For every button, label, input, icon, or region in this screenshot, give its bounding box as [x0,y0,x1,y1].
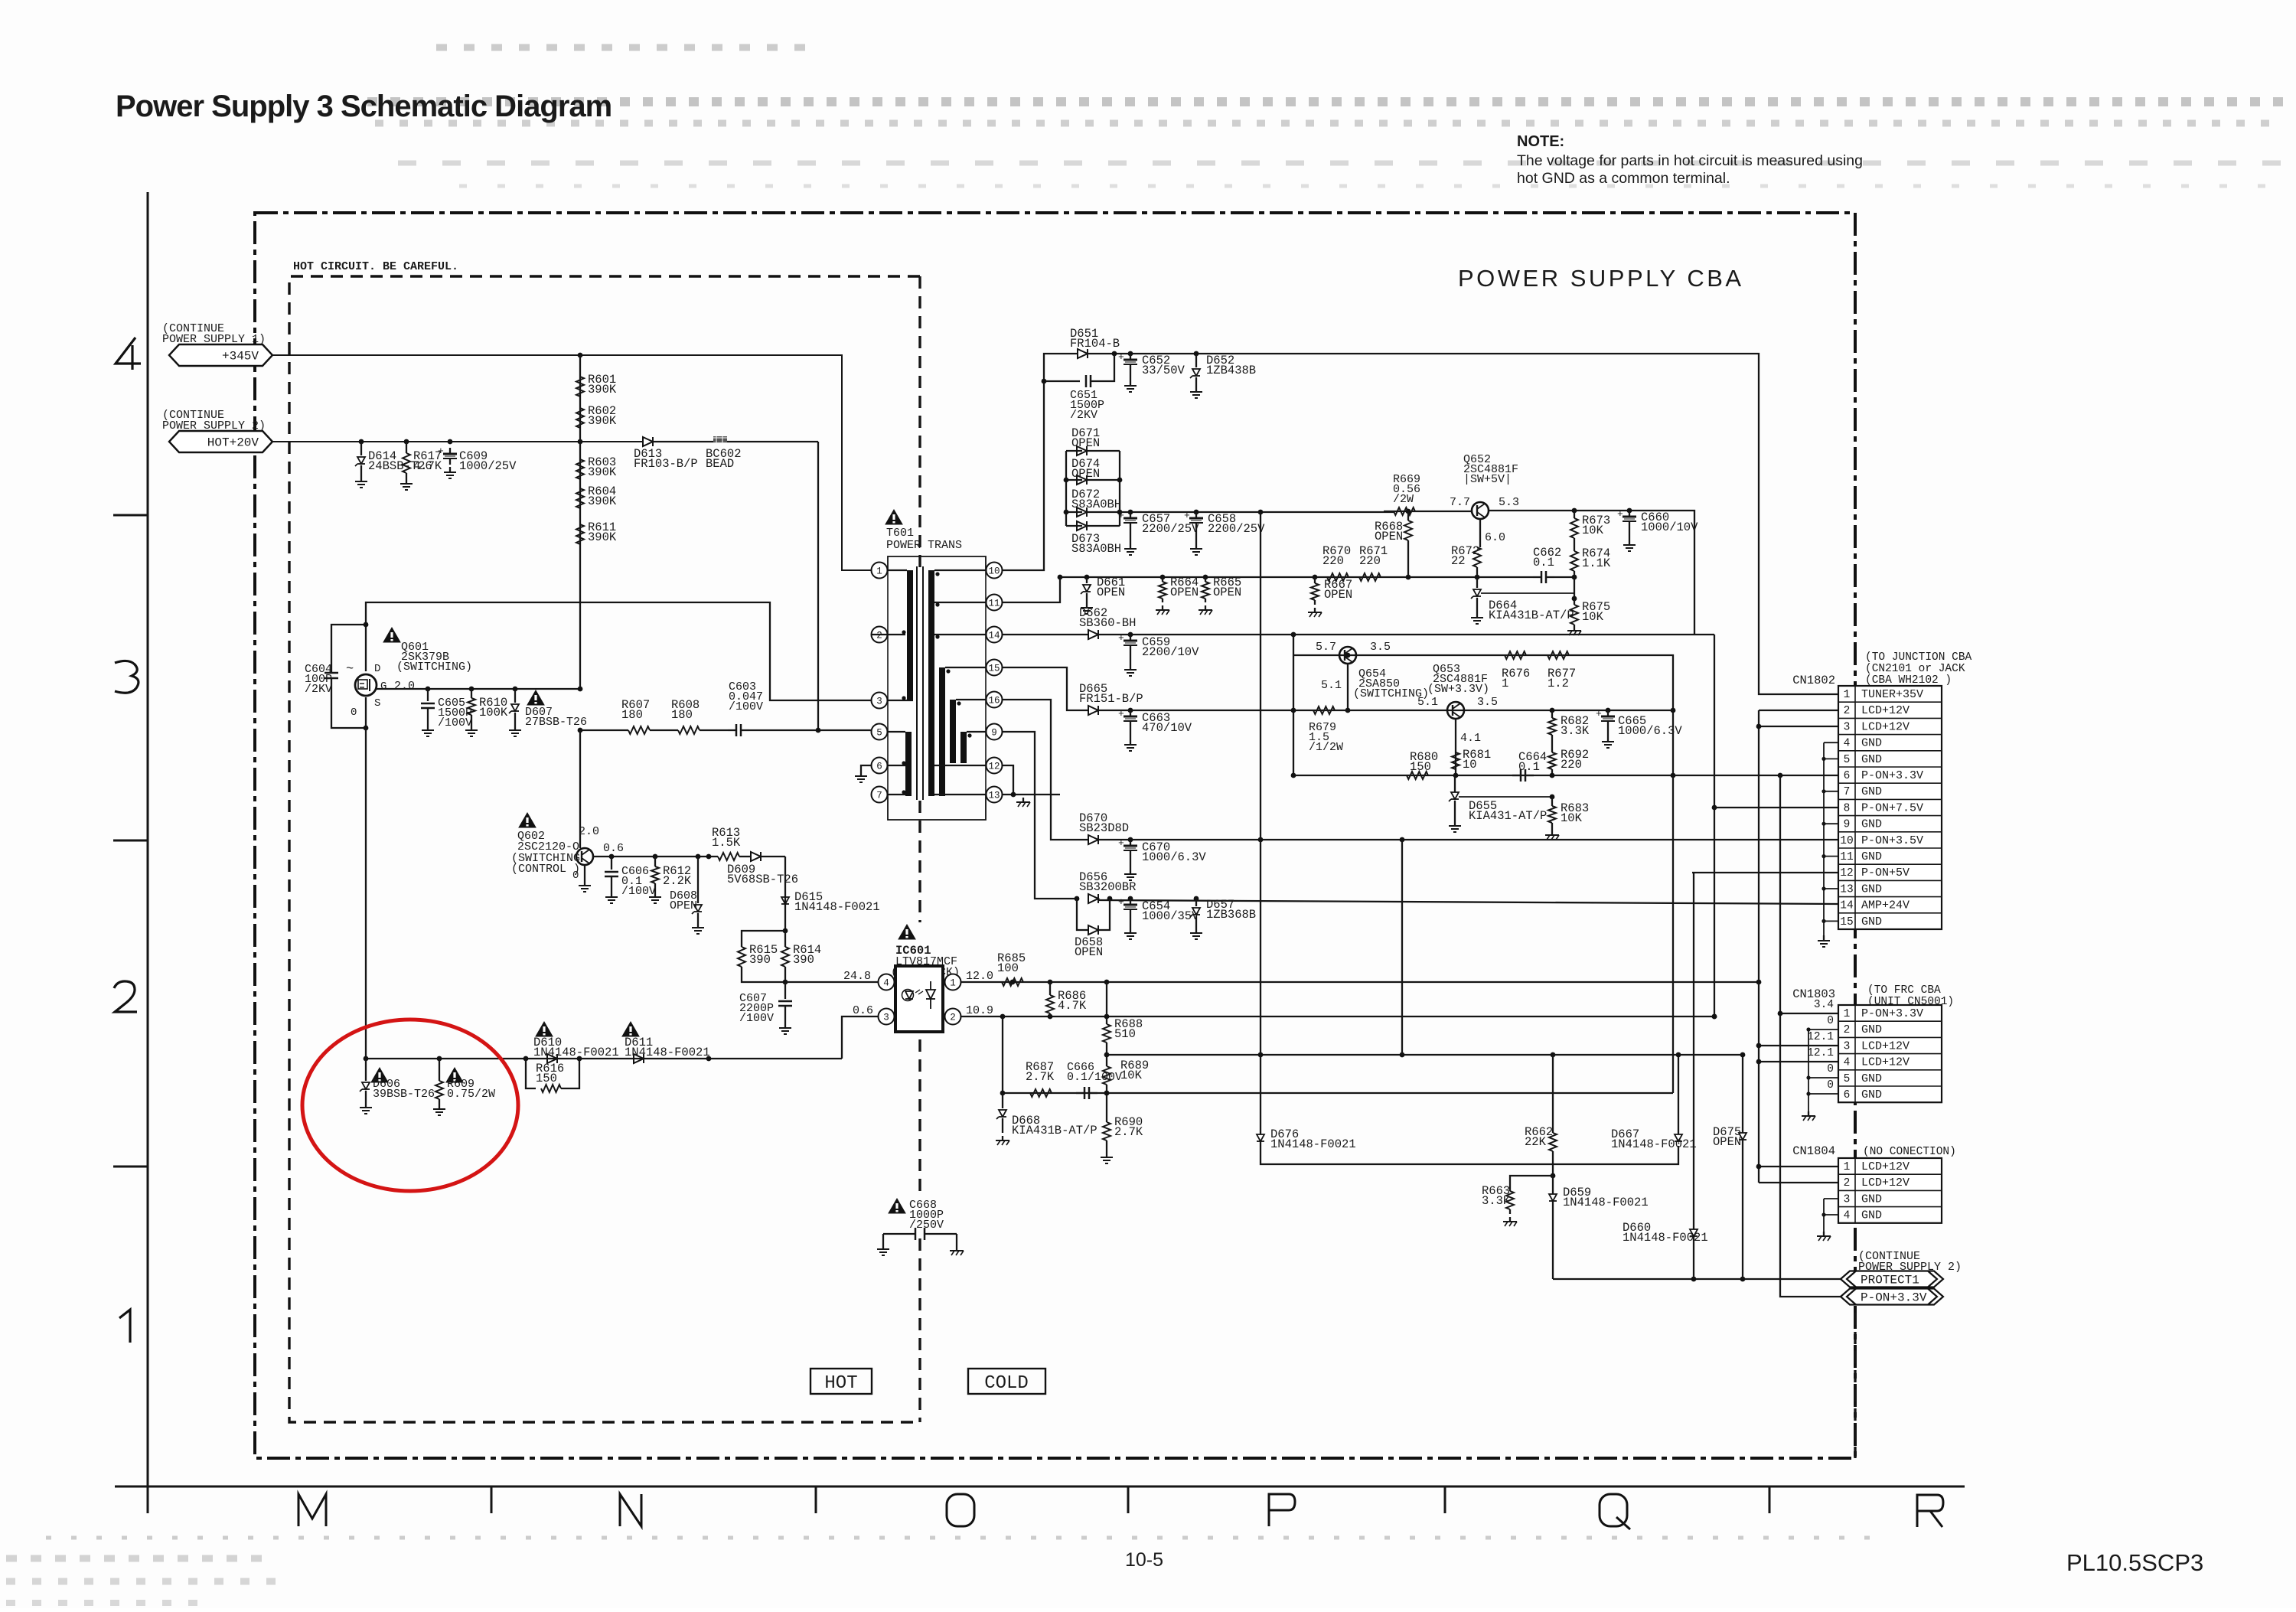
svg-text:2.7K: 2.7K [1114,1125,1143,1139]
svg-text:NOTE:: NOTE: [1517,133,1564,150]
svg-text:390K: 390K [588,530,617,544]
pin 15 [987,660,1003,676]
wire P-ON5V row12 [1692,872,1838,873]
capacitor C660 [1629,511,1630,517]
resistor R673 [1574,511,1575,518]
pin 2 [945,1009,961,1025]
svg-text:100K: 100K [479,706,508,720]
warning triangle D611 [622,1022,639,1036]
svg-text:LCD+12V: LCD+12V [1861,720,1910,733]
wire rectifier output SW5V line [1120,511,1394,513]
wire SW5V rail [1384,511,1472,512]
svg-text:1: 1 [1844,1008,1851,1020]
svg-text:GND: GND [1861,1088,1882,1101]
svg-text:+: + [1118,837,1124,849]
svg-text:4: 4 [1844,738,1851,750]
svg-text:POWER SUPPLY 1): POWER SUPPLY 1) [162,333,266,346]
wire P-ON+3.3V line [1295,775,1838,776]
svg-text:13: 13 [988,791,1000,801]
resistor R692 [1548,752,1556,769]
capacitor C663 [1130,710,1131,716]
svg-text:14: 14 [1840,900,1853,912]
column letter P [1269,1494,1295,1526]
zener D655 [1451,792,1459,799]
resistor R617 [406,442,407,453]
wire pin12 to pin13 ground [1003,765,1013,795]
capacitor C654 [1130,899,1131,905]
wire +345V rail to T601 pin1 [272,355,879,570]
resistor R616 loop [526,1059,536,1088]
svg-text:SB23D8D: SB23D8D [1079,821,1129,835]
zener D607 [514,689,516,703]
svg-text:1ZB438B: 1ZB438B [1206,364,1256,377]
diode D665 [1088,706,1098,715]
warning triangle D607 [527,690,544,705]
warning triangle D606 [371,1068,388,1082]
svg-text:+: + [1118,632,1124,644]
svg-text:P-ON+7.5V: P-ON+7.5V [1861,801,1923,814]
bottom axis tick 2 [815,1486,817,1513]
svg-text:1N4148-F0021: 1N4148-F0021 [1611,1137,1697,1151]
svg-text:(NO CONECTION): (NO CONECTION) [1863,1146,1956,1158]
resistor R674 [1570,551,1578,571]
svg-text:10-5: 10-5 [1125,1549,1163,1571]
resistor R677 [1548,651,1569,659]
svg-text:4: 4 [883,978,889,989]
resistor R664 [1162,577,1163,582]
resistor R686 [1049,982,1051,995]
svg-text:LCD+12V: LCD+12V [1861,1160,1910,1173]
polarity dots T601 [902,630,905,634]
wire LCD12V corner x2240 [1714,635,1715,1016]
svg-text:~: ~ [346,662,354,677]
svg-text:P-ON+3.3V: P-ON+3.3V [1861,769,1923,782]
resistor R676 [1505,651,1526,659]
wire Q602 base line [593,856,718,857]
zener D606 [365,1059,367,1081]
connector CN1804 [1838,1158,1942,1223]
svg-text:2200/25V: 2200/25V [1208,522,1265,536]
wire pin1 feedback rail [961,981,1759,983]
diode D662 [1088,630,1098,639]
resistor R665 [1205,577,1206,582]
resistor R607 [628,726,650,734]
svg-text:/100V: /100V [621,885,656,898]
diode D659 [1549,1194,1557,1201]
transistor Q652 [1472,502,1489,519]
resistor R609 [439,1059,440,1081]
resistor R610 [471,689,472,698]
svg-text:5: 5 [876,728,882,739]
svg-text:1: 1 [1844,1161,1851,1173]
svg-text:T601: T601 [886,527,914,540]
wire CN1804 gnd stubs [1824,1198,1838,1199]
pin 13 [987,787,1003,803]
capacitor C659 [1130,635,1131,641]
transistor Q654 [1339,647,1356,664]
svg-text:1000/6.3V: 1000/6.3V [1618,724,1682,738]
warning triangle IC601 [889,922,966,977]
wire BC602 to gate-drive line [817,442,819,730]
transformer winding secondary A [928,570,934,796]
svg-text:7: 7 [876,791,882,801]
axis tick row3/2 [113,840,148,842]
svg-text:5.1: 5.1 [1321,679,1342,692]
chassis ground pin13 [1022,798,1024,802]
svg-text:4: 4 [1844,1057,1851,1069]
svg-text:OPEN: OPEN [1071,467,1100,481]
svg-text:1000/25V: 1000/25V [459,459,517,473]
zener D608 [697,857,699,903]
wire CN1802 gnd stubs [1824,742,1838,743]
svg-text:/1/2W: /1/2W [1309,741,1343,754]
diode D674 [1077,475,1087,485]
resistor R679 [1313,706,1335,714]
svg-text:P-ON+3.3V: P-ON+3.3V [1861,1291,1927,1305]
wire SW3.3 top rail [1293,655,1673,775]
wire D668 branch [1002,1016,1003,1093]
svg-text:390: 390 [793,953,814,967]
transistor Q653 [1447,702,1464,719]
diode D615 [781,897,789,904]
wire PROTECT1 line [1553,1278,1841,1280]
resistor R681 [1452,752,1459,769]
row label 3 [115,661,139,693]
wire vertical x1832 [1401,840,1403,1055]
transformer winding secondary D [960,732,967,763]
svg-text:4: 4 [1844,1210,1851,1222]
svg-text:(SWITCHING): (SWITCHING) [396,661,472,674]
bottom axis line [115,1486,1965,1488]
capacitor C605 [427,689,429,701]
column letter O [947,1494,974,1526]
svg-text:1.2: 1.2 [1548,677,1569,690]
svg-text:OPEN: OPEN [1170,586,1199,599]
pin 14 [987,627,1003,643]
net flag HOT+20V [169,431,272,452]
svg-text:+: + [1118,351,1124,363]
svg-text:(TO JUNCTION CBA: (TO JUNCTION CBA [1865,651,1972,664]
svg-text:1: 1 [950,978,956,989]
transistor Q602 [576,848,593,865]
wire Q654 base down [1347,664,1349,710]
svg-text:3.3K: 3.3K [1561,724,1590,738]
svg-text:1: 1 [876,566,882,577]
svg-text:OPEN: OPEN [1713,1135,1741,1149]
pin 2 [872,627,888,643]
net flag P-ON+3.3V [1841,1289,1943,1305]
svg-text:3.3K: 3.3K [1482,1194,1511,1208]
resistor R688 [1106,982,1107,1024]
svg-text:10.9: 10.9 [966,1004,993,1017]
wire mid bus y1378 [1107,1054,1553,1056]
wire emitter rail y928 [1293,710,1673,711]
svg-text:390K: 390K [588,494,617,508]
svg-text:0.6: 0.6 [853,1004,873,1017]
net flag +345V [169,344,272,366]
zener D652 [1195,354,1197,367]
svg-text:+: + [1118,510,1124,521]
svg-text:(CN2101 or JACK: (CN2101 or JACK [1865,663,1965,675]
svg-text:7: 7 [1844,786,1851,798]
svg-text:FR103-B/P: FR103-B/P [634,457,698,471]
svg-text:1N4148-F0021: 1N4148-F0021 [1270,1137,1356,1151]
svg-text:7.7: 7.7 [1450,496,1470,509]
svg-text:5: 5 [1844,754,1851,766]
svg-text:1000/6.3V: 1000/6.3V [1142,850,1206,864]
svg-text:0: 0 [1827,1015,1834,1027]
pin 12 [987,758,1003,774]
svg-text:3: 3 [1844,1040,1851,1052]
wire base line to D615 node [784,857,786,931]
svg-text:BEAD: BEAD [706,457,734,471]
svg-text:2: 2 [1844,1177,1851,1189]
svg-text:6: 6 [1844,1089,1851,1101]
svg-text:P-ON+5V: P-ON+5V [1861,866,1910,879]
diode D670 [1088,835,1098,844]
svg-text:0: 0 [351,706,357,719]
svg-text:POWER SUPPLY 2): POWER SUPPLY 2) [1858,1261,1962,1274]
svg-text:2.7K: 2.7K [1026,1070,1055,1084]
svg-text:GND: GND [1861,753,1882,766]
svg-text:2: 2 [1844,1024,1851,1036]
wire D655 row [1454,775,1456,792]
svg-text:GND: GND [1861,883,1882,896]
svg-text:OPEN: OPEN [1375,530,1403,543]
svg-text:1: 1 [1502,677,1508,690]
svg-text:3: 3 [876,697,882,707]
svg-text:1N4148-F0021: 1N4148-F0021 [533,1046,619,1059]
svg-text:TUNER+35V: TUNER+35V [1861,688,1923,701]
bottom axis tick 1 [491,1486,493,1513]
svg-text:+: + [1617,508,1623,520]
resistor R690 [1106,1093,1107,1122]
svg-text:10K: 10K [1582,610,1604,624]
svg-text:0.6: 0.6 [603,842,624,855]
svg-text:D: D [374,663,380,675]
svg-text:9: 9 [991,728,997,739]
connector CN1802 [1838,686,1942,929]
svg-text:12.1: 12.1 [1807,1047,1834,1059]
row label 2 [114,981,137,1012]
svg-text:GND: GND [1861,915,1882,928]
svg-text:12.0: 12.0 [966,970,993,983]
capacitor C664 [1512,775,1521,776]
svg-text:8: 8 [1844,802,1851,814]
svg-text:/2KV: /2KV [1070,409,1097,422]
svg-text:P-ON+3.5V: P-ON+3.5V [1861,834,1923,847]
axis tick row4/3 [113,514,148,517]
svg-text:LCD+12V: LCD+12V [1861,1039,1910,1052]
column letter R [1917,1495,1943,1527]
diode D671 [1077,446,1087,455]
svg-text:2: 2 [1844,705,1851,717]
svg-text:6: 6 [1844,770,1851,782]
bottom axis tick 3 [1127,1486,1130,1513]
svg-text:1N4148-F0021: 1N4148-F0021 [625,1046,710,1059]
svg-text:2.0: 2.0 [579,825,599,838]
svg-text:1.5K: 1.5K [712,836,741,850]
diode D656 [1088,894,1098,903]
svg-text:KIA431-AT/P: KIA431-AT/P [1469,809,1547,823]
capacitor C658 [1195,512,1197,518]
svg-text:0.1: 0.1 [1518,760,1540,774]
pin 4 [879,974,895,990]
svg-text:GND: GND [1861,1023,1882,1036]
scan artifact band 1 [436,44,811,51]
hot circuit dashed box [289,276,920,1422]
wire vertical x1647 [1260,512,1261,1055]
capacitor C607 [784,982,786,999]
wire left block edge x1690 [1293,635,1294,775]
svg-text:+345V: +345V [222,350,259,364]
resistor R680 [1407,772,1428,779]
resistor R689 [1106,1055,1107,1066]
svg-text:GND: GND [1861,818,1882,831]
wire T601 pin stubs left [888,569,907,571]
svg-text:510: 510 [1114,1027,1136,1041]
svg-text:S83A0BH: S83A0BH [1071,542,1121,556]
svg-text:+: + [1184,510,1190,521]
row label 4 [116,338,141,370]
wire chain to Q602 collector [579,730,581,848]
svg-text:S: S [374,697,380,710]
wire CN1803 gnd stubs [1808,1029,1838,1030]
svg-text:27BSB-T26: 27BSB-T26 [525,716,587,729]
svg-text:5.1: 5.1 [1417,696,1438,709]
svg-text:SB360-BH: SB360-BH [1079,616,1136,630]
red inspection ellipse [302,1020,518,1191]
resistor R683 [1551,797,1553,806]
pin 1 [872,563,888,579]
hot cold divider dashed line [918,276,921,569]
zener D657 [1195,899,1197,906]
bottom axis tick 5 [1769,1486,1771,1513]
capacitor C651 loop [1044,380,1080,382]
capacitor C666 [1076,1092,1084,1094]
ground T601 pin6 [861,765,871,771]
svg-text:LCD+12V: LCD+12V [1861,1176,1910,1189]
svg-text:KIA431B-AT/P: KIA431B-AT/P [1489,609,1574,622]
svg-text:1000/10V: 1000/10V [1641,520,1698,534]
resistor R662 [1552,1055,1554,1133]
wire AMP+24V line [1099,900,1838,904]
svg-text:PROTECT1: PROTECT1 [1861,1274,1919,1287]
svg-text:+: + [438,445,444,457]
wire Q601 source to D606 line [365,697,367,1059]
row label 1 [119,1310,130,1343]
svg-text:LCD+12V: LCD+12V [1861,1056,1910,1069]
resistor R687 [1030,1089,1052,1097]
wire P-ON+3.5V line [1099,839,1838,840]
svg-text:6.0: 6.0 [1485,531,1505,544]
capacitor C603 [728,729,736,731]
svg-text:/2W: /2W [1393,493,1414,506]
svg-text:390K: 390K [588,414,617,428]
svg-text:1N4148-F0021: 1N4148-F0021 [794,900,880,914]
warning triangle Q602 [519,813,536,827]
svg-text:(TO FRC CBA: (TO FRC CBA [1867,984,1941,997]
ground Q602 emitter [584,865,585,880]
svg-text:Power Supply 3 Schematic Diagr: Power Supply 3 Schematic Diagram [116,90,612,123]
wire C603 to pin5 [749,729,879,731]
wire pin16 to D670 [1003,700,1088,840]
resistor R611 [576,524,584,544]
diode D658 parallel loop [1077,899,1088,930]
svg-text:GND: GND [1861,1072,1882,1085]
svg-text:180: 180 [621,708,643,722]
wire TUNER+35V rail [1088,354,1838,694]
svg-text:10: 10 [1463,758,1477,772]
svg-text:10: 10 [988,566,1000,577]
diode D609 [751,852,761,861]
capacitor C657 [1130,512,1131,518]
svg-text:220: 220 [1359,554,1381,568]
wire snubber line to T601 pin5 [580,729,628,731]
resistor R682 [1551,710,1553,718]
svg-text:220: 220 [1561,758,1582,772]
svg-text:150: 150 [536,1072,557,1085]
column letter M [298,1494,326,1526]
svg-text:10K: 10K [1582,524,1604,537]
svg-text:390K: 390K [588,383,617,396]
wire D676 to D667 link [1261,1141,1678,1164]
svg-text:OPEN: OPEN [1071,436,1100,450]
svg-text:16: 16 [988,696,1000,706]
transformer winding primary top [907,570,913,700]
pin 1 [945,974,961,990]
svg-text:OPEN: OPEN [1213,586,1241,599]
diode D651 [1078,349,1088,358]
resistor R672 [1473,547,1481,567]
resistor R601 [576,377,584,396]
outer dash-dot border [255,213,1855,1458]
svg-text:GND: GND [1861,850,1882,863]
transformer winding secondary B [939,667,945,796]
svg-text:OPEN: OPEN [670,899,697,912]
svg-text:2.0: 2.0 [394,680,415,693]
svg-text:OPEN: OPEN [1097,586,1125,599]
svg-text:9: 9 [1844,819,1851,831]
svg-text:3.5: 3.5 [1477,696,1498,709]
resistor R608 [678,726,700,734]
svg-text:1N4148-F0021: 1N4148-F0021 [1623,1231,1708,1245]
wire pin9 to D656 [1003,732,1077,899]
wire bus extension to D667 [1553,1054,1678,1056]
resistor R614 [784,931,786,947]
wire T601 pin10 to D651 [1003,354,1078,570]
pin 7 [872,787,888,803]
diode D676 drop [1260,1055,1261,1134]
svg-text:39BSB-T26: 39BSB-T26 [373,1088,435,1101]
svg-text:14: 14 [988,631,1000,641]
svg-text:PL10.5SCP3: PL10.5SCP3 [2066,1549,2203,1576]
rectifier ladder wires [1065,451,1067,526]
svg-text:100: 100 [997,961,1019,975]
resistor R685 [1002,978,1023,986]
svg-text:GND: GND [1861,1209,1882,1222]
svg-text:5: 5 [1844,1073,1851,1085]
diode D610 [547,1054,557,1063]
svg-text:FR104-B: FR104-B [1070,337,1120,351]
svg-text:180: 180 [671,708,693,722]
svg-text:/100V: /100V [729,700,763,713]
wire T601 pin stubs right [934,569,986,571]
HOT label box [810,1369,872,1394]
svg-text:OPEN: OPEN [1324,588,1352,602]
pin 3 [879,1009,895,1025]
transformer T601 frame [888,556,986,820]
